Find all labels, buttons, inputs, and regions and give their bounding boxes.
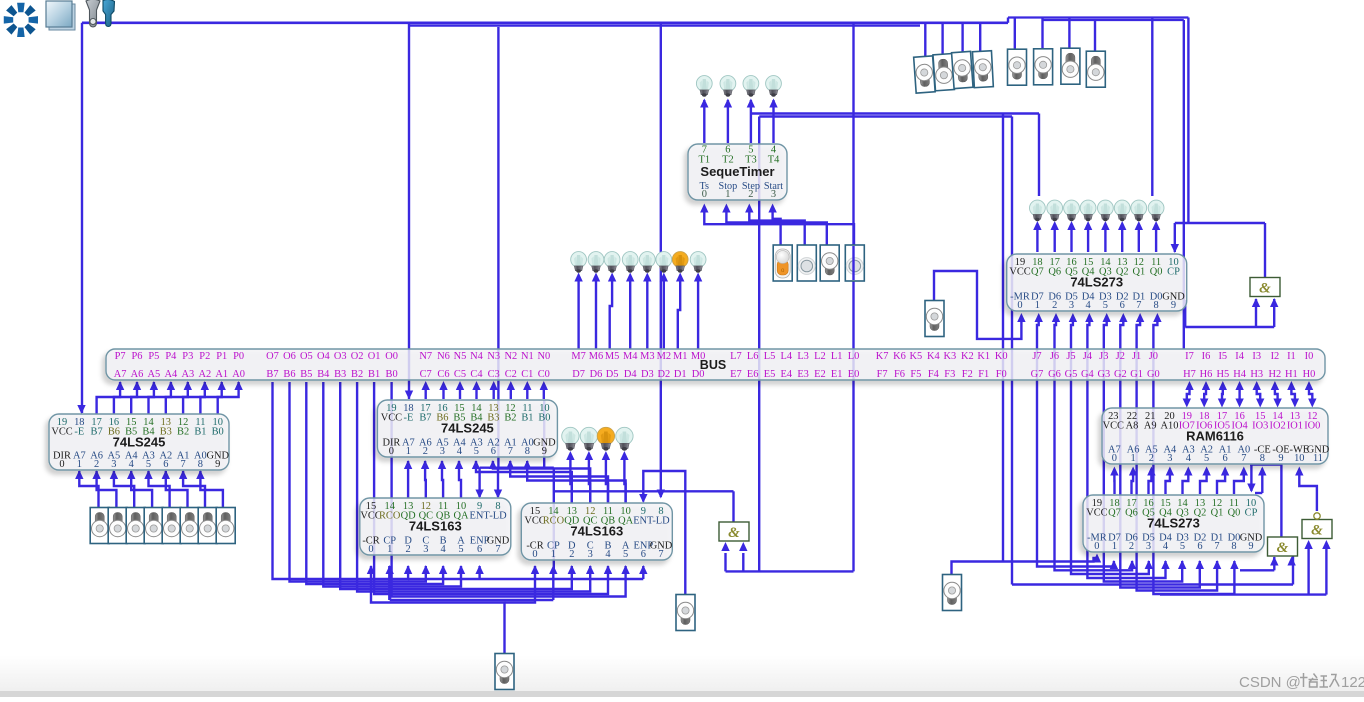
bulb M2 bus indicator bbox=[656, 252, 672, 273]
svg-text:B0: B0 bbox=[212, 427, 224, 438]
switch SW3 input bank toggle bbox=[162, 508, 181, 544]
wire: top rail L2 y=26.5 from x409 to x920 bbox=[409, 24, 920, 26]
svg-text:P0: P0 bbox=[233, 351, 244, 362]
svg-text:B7: B7 bbox=[419, 413, 431, 424]
svg-text:3: 3 bbox=[1167, 453, 1172, 464]
wire: BUS B drops to counters data inputs bbox=[273, 382, 409, 579]
bulb Q7 register indicator bbox=[1030, 200, 1046, 221]
svg-text:N6: N6 bbox=[437, 351, 450, 362]
svg-text:A6: A6 bbox=[131, 369, 144, 380]
svg-text:0: 0 bbox=[389, 446, 394, 457]
svg-text:E7: E7 bbox=[730, 369, 742, 380]
svg-text:IO2: IO2 bbox=[1270, 421, 1286, 432]
wire: top 273 Q outputs up to bulbs Q7..Q0 bbox=[1036, 230, 1038, 252]
wire: -MR net of bottom 74LS273 from switch S6 bbox=[952, 558, 1098, 574]
svg-text:O7: O7 bbox=[266, 351, 279, 362]
svg-text:Q0: Q0 bbox=[1228, 508, 1241, 519]
wire: RAM -OE / G3 output net bbox=[1250, 463, 1281, 465]
wire: top rail L3b y=20 x1042-x1184 bbox=[1043, 19, 1184, 21]
wire: ENP tie line along band y=580 to right counter ENP bbox=[478, 566, 480, 579]
svg-text:P4: P4 bbox=[165, 351, 177, 362]
wire: tap drop x=1003 down to bottom -MR net bbox=[1002, 114, 1004, 562]
svg-text:7: 7 bbox=[1214, 541, 1219, 552]
wire: right counter outputs up to indicator bulbs bbox=[570, 458, 571, 503]
svg-text:A5: A5 bbox=[148, 369, 161, 380]
svg-text:7: 7 bbox=[1136, 300, 1141, 311]
svg-text:H5: H5 bbox=[1216, 369, 1229, 380]
svg-text:J2: J2 bbox=[1116, 351, 1125, 362]
toolbar icon: document bbox=[46, 1, 75, 30]
svg-text:Q7: Q7 bbox=[1108, 508, 1121, 519]
switch SB3 toggle up bbox=[1061, 48, 1080, 84]
svg-text:Q6: Q6 bbox=[1048, 267, 1061, 278]
svg-text:H7: H7 bbox=[1183, 369, 1196, 380]
svg-text:6: 6 bbox=[1222, 453, 1227, 464]
bulb Q4 register indicator bbox=[1080, 200, 1096, 221]
svg-text:0: 0 bbox=[1094, 541, 1099, 552]
svg-text:0: 0 bbox=[59, 459, 64, 470]
svg-text:G6: G6 bbox=[1048, 369, 1061, 380]
bulb M3 bus indicator bbox=[639, 252, 655, 273]
wire: second tap line y=116.5 x759-x1012 bbox=[759, 115, 1012, 117]
svg-text:I2: I2 bbox=[1271, 351, 1280, 362]
switch SA4 toggle (slanted) bbox=[972, 51, 993, 88]
svg-text:B2: B2 bbox=[504, 413, 516, 424]
svg-text:VCC: VCC bbox=[1009, 267, 1030, 278]
svg-text:C5: C5 bbox=[454, 369, 466, 380]
svg-text:L1: L1 bbox=[831, 351, 843, 362]
switch SW6 input bank toggle bbox=[108, 508, 127, 544]
svg-text:RCO: RCO bbox=[543, 516, 565, 527]
svg-text:CSDN @: CSDN @ bbox=[1239, 674, 1301, 691]
svg-text:11: 11 bbox=[1313, 453, 1323, 464]
chip U5 74LS273 (top) bbox=[1007, 254, 1187, 311]
svg-text:I7: I7 bbox=[1185, 351, 1194, 362]
svg-text:E4: E4 bbox=[781, 369, 793, 380]
svg-text:C2: C2 bbox=[505, 369, 517, 380]
wire: switch S5 to -MR of top 74LS273 bbox=[934, 271, 1021, 339]
svg-text:Q7: Q7 bbox=[1031, 267, 1044, 278]
wire: sequencer input Stop from switch S3 bbox=[726, 212, 826, 245]
svg-text:O1: O1 bbox=[368, 351, 381, 362]
bulb Q5 register indicator bbox=[1064, 200, 1080, 221]
svg-text:G1: G1 bbox=[1130, 369, 1143, 380]
wire: NAND input feeder y=594.6 bbox=[1160, 593, 1326, 595]
svg-text:0: 0 bbox=[702, 189, 707, 200]
svg-text:ENT: ENT bbox=[633, 516, 654, 527]
bulb Q0 register indicator bbox=[1148, 200, 1164, 221]
svg-text:1: 1 bbox=[1035, 300, 1040, 311]
svg-text:O2: O2 bbox=[351, 351, 364, 362]
svg-text:A10: A10 bbox=[1161, 421, 1179, 432]
svg-text:B4: B4 bbox=[317, 369, 330, 380]
svg-text:I6: I6 bbox=[1202, 351, 1211, 362]
svg-text:M2: M2 bbox=[657, 351, 671, 362]
svg-text:G3: G3 bbox=[1097, 369, 1110, 380]
svg-text:H4: H4 bbox=[1233, 369, 1247, 380]
AND gate G3 (bottom right small) bbox=[1268, 537, 1298, 556]
svg-text:K4: K4 bbox=[927, 351, 941, 362]
svg-text:4: 4 bbox=[440, 544, 446, 555]
wire: enable riser x=498 (through BUS and chip2) down to load net bbox=[497, 27, 499, 468]
svg-text:D6: D6 bbox=[590, 369, 603, 380]
svg-text:C3: C3 bbox=[488, 369, 500, 380]
bulb M0 bus indicator bbox=[690, 252, 706, 273]
svg-text:2: 2 bbox=[405, 544, 410, 555]
svg-text:K3: K3 bbox=[943, 351, 956, 362]
switch S5 (feeds -MR of top 273) bbox=[925, 301, 944, 337]
switch S2 button bbox=[797, 245, 816, 281]
svg-text:BUS: BUS bbox=[700, 358, 726, 372]
svg-text:3: 3 bbox=[423, 544, 428, 555]
wire: M-section bulb leads from BUS top bbox=[577, 281, 579, 349]
bulb Q1 register indicator bbox=[1131, 200, 1147, 221]
svg-text:2: 2 bbox=[1052, 300, 1057, 311]
svg-text:J1: J1 bbox=[1132, 351, 1141, 362]
BUS component bbox=[106, 349, 1325, 380]
svg-text:B0: B0 bbox=[538, 413, 550, 424]
svg-text:SequeTimer: SequeTimer bbox=[700, 164, 774, 179]
bulb T4 indicator bbox=[766, 76, 782, 97]
bulb T1 indicator bbox=[696, 76, 712, 97]
bulb M7 bus indicator bbox=[571, 252, 587, 273]
svg-text:6: 6 bbox=[1120, 300, 1125, 311]
svg-text:VCC: VCC bbox=[1086, 508, 1107, 519]
wire: riser x=853.5 rail through switch S4 and BUS down to AND inputs bbox=[852, 23, 854, 572]
AND gate G1 (upper right) bbox=[1250, 278, 1280, 297]
svg-text:74LS163: 74LS163 bbox=[409, 519, 462, 534]
chip U6 RAM6116 bbox=[1102, 408, 1328, 464]
svg-text:0: 0 bbox=[1112, 453, 1117, 464]
svg-text:4: 4 bbox=[129, 459, 135, 470]
svg-text:K7: K7 bbox=[876, 351, 889, 362]
wire: left 74LS245 B outputs staircase up to BUS A pins bbox=[97, 382, 121, 414]
svg-text:L7: L7 bbox=[730, 351, 742, 362]
svg-text:B0: B0 bbox=[386, 369, 398, 380]
switch SB4 toggle up bbox=[1086, 51, 1105, 87]
svg-text:H1: H1 bbox=[1285, 369, 1298, 380]
svg-text:VCC: VCC bbox=[381, 413, 402, 424]
wire: T3 tap line y=113.5 from timer to bulb chain bbox=[751, 112, 1039, 114]
wire: -E riser of second 74LS245, x=409 (through BUS) bbox=[408, 23, 410, 399]
svg-text:N0: N0 bbox=[537, 351, 550, 362]
wire: -CR net from bottom switch S9 to both counters bbox=[371, 566, 505, 653]
svg-text:M7: M7 bbox=[571, 351, 585, 362]
svg-text:CP: CP bbox=[1167, 267, 1180, 278]
switch S9 (counter -CR) bbox=[495, 654, 514, 690]
svg-text:8: 8 bbox=[1153, 300, 1158, 311]
svg-text:CP: CP bbox=[1245, 508, 1258, 519]
svg-text:N4: N4 bbox=[470, 351, 484, 362]
svg-text:7: 7 bbox=[180, 459, 185, 470]
svg-text:J4: J4 bbox=[1083, 351, 1093, 362]
svg-text:3: 3 bbox=[771, 189, 776, 200]
wire: AND G3 input feeder y=570.3 bbox=[1240, 569, 1274, 571]
svg-text:B2: B2 bbox=[177, 427, 189, 438]
svg-text:H0: H0 bbox=[1303, 369, 1316, 380]
svg-text:A3: A3 bbox=[181, 369, 194, 380]
svg-text:E2: E2 bbox=[814, 369, 826, 380]
svg-text:O5: O5 bbox=[300, 351, 313, 362]
svg-text:RAM6116: RAM6116 bbox=[1186, 429, 1244, 444]
wire: riser x=1012 down through BUS/273 to low feeder bbox=[1011, 117, 1013, 585]
bulb Q3 register indicator bbox=[1098, 200, 1114, 221]
svg-text:1: 1 bbox=[1112, 541, 1117, 552]
chip U2 74LS245 (second) bbox=[377, 400, 557, 457]
svg-text:9: 9 bbox=[215, 459, 220, 470]
svg-text:3: 3 bbox=[1146, 541, 1151, 552]
svg-text:N7: N7 bbox=[419, 351, 432, 362]
wire: AND gate G1 output drop x=1265 bbox=[1264, 223, 1266, 277]
svg-text:B6: B6 bbox=[283, 369, 295, 380]
wire: drop x=1039 to top of bulb Q7 bbox=[1038, 114, 1040, 197]
svg-text:P2: P2 bbox=[199, 351, 210, 362]
svg-text:Q1: Q1 bbox=[1132, 267, 1145, 278]
wire: segment of x853.5 riser passing through inline switch S4 bbox=[852, 246, 854, 280]
svg-text:D3: D3 bbox=[641, 369, 654, 380]
svg-text:F6: F6 bbox=[894, 369, 905, 380]
svg-text:C0: C0 bbox=[538, 369, 550, 380]
svg-text:2: 2 bbox=[569, 549, 574, 560]
svg-text:4: 4 bbox=[457, 446, 463, 457]
svg-text:5: 5 bbox=[458, 544, 463, 555]
wire: input switches up to left 74LS245 A pins bbox=[79, 471, 98, 508]
svg-text:G4: G4 bbox=[1081, 369, 1095, 380]
svg-text:O3: O3 bbox=[334, 351, 347, 362]
bulb M1 bus indicator (lit) bbox=[672, 252, 688, 273]
svg-text:O0: O0 bbox=[385, 351, 398, 362]
svg-text:9: 9 bbox=[1171, 300, 1176, 311]
svg-text:8: 8 bbox=[198, 459, 203, 470]
svg-text:F1: F1 bbox=[978, 369, 989, 380]
bulb Q2 register indicator bbox=[1114, 200, 1130, 221]
wire: CP band linking both counters y=600 bbox=[390, 599, 554, 601]
bulb counter QA bbox=[616, 427, 633, 450]
wire: rail end drop x=1152.3 down to bulb Q7 top bbox=[1151, 18, 1153, 197]
bulb counter QB (lit) bbox=[597, 427, 614, 450]
svg-text:B7: B7 bbox=[266, 369, 278, 380]
svg-text:C1: C1 bbox=[521, 369, 533, 380]
svg-text:Q6: Q6 bbox=[1125, 508, 1138, 519]
wire: counter outputs (right 163) across to 74LS245-2 A3..A0 bbox=[476, 461, 572, 503]
svg-text:-E: -E bbox=[74, 427, 84, 438]
svg-text:K6: K6 bbox=[893, 351, 906, 362]
svg-text:6: 6 bbox=[641, 549, 646, 560]
svg-text:F0: F0 bbox=[996, 369, 1007, 380]
wire: RAM -CE stub bbox=[1261, 469, 1263, 494]
svg-text:B1: B1 bbox=[368, 369, 380, 380]
svg-text:N2: N2 bbox=[504, 351, 517, 362]
bulb T3 indicator bbox=[743, 76, 759, 97]
svg-text:6: 6 bbox=[1197, 541, 1202, 552]
bulb Q6 register indicator bbox=[1047, 200, 1063, 221]
svg-text:&: & bbox=[1311, 523, 1323, 539]
switch SW4 input bank toggle bbox=[144, 508, 163, 544]
wire: bottom 273 Q outputs staircase to RAM address pins bbox=[1113, 469, 1115, 494]
svg-text:O6: O6 bbox=[283, 351, 296, 362]
svg-text:C4: C4 bbox=[470, 369, 483, 380]
wire: sequencer input Step from switch S2 bbox=[749, 212, 804, 245]
svg-text:A7: A7 bbox=[114, 369, 127, 380]
switch S1 rocker (on) bbox=[773, 245, 792, 281]
bulb counter QC bbox=[580, 427, 597, 450]
wire: CP_r feed from chip2 row through chip bbox=[553, 468, 555, 570]
svg-text:1: 1 bbox=[1130, 453, 1135, 464]
svg-text:Q0: Q0 bbox=[1150, 267, 1163, 278]
svg-text:E1: E1 bbox=[831, 369, 843, 380]
svg-text:IO3: IO3 bbox=[1252, 421, 1268, 432]
svg-text:3: 3 bbox=[440, 446, 445, 457]
switch S3 toggle down bbox=[820, 245, 839, 281]
AND gate G2 (middle, counters load) bbox=[719, 522, 749, 541]
wire: bus C0 tap down through 74LS245-2 to load row bbox=[543, 400, 545, 468]
svg-text:B1: B1 bbox=[521, 413, 533, 424]
svg-text:F5: F5 bbox=[910, 369, 921, 380]
svg-text:2: 2 bbox=[423, 446, 428, 457]
svg-text:7: 7 bbox=[508, 446, 513, 457]
wire: AND gate G2 inputs feeder y=571.4 bbox=[726, 570, 854, 572]
svg-text:8: 8 bbox=[1231, 541, 1236, 552]
svg-text:7: 7 bbox=[495, 544, 500, 555]
wire: sequencer T outputs up to bulbs T1-T4 bbox=[703, 100, 705, 143]
svg-text:ENT: ENT bbox=[469, 511, 490, 522]
svg-text:7: 7 bbox=[658, 549, 663, 560]
svg-text:4: 4 bbox=[605, 549, 611, 560]
svg-text:K2: K2 bbox=[961, 351, 974, 362]
toolbar icon: refresh burst bbox=[4, 3, 38, 37]
svg-text:H3: H3 bbox=[1250, 369, 1263, 380]
svg-text:5: 5 bbox=[1204, 453, 1209, 464]
svg-text:D5: D5 bbox=[606, 369, 619, 380]
svg-text:B3: B3 bbox=[334, 369, 346, 380]
svg-text:RCO: RCO bbox=[379, 511, 401, 522]
svg-text:L2: L2 bbox=[814, 351, 826, 362]
svg-text:6: 6 bbox=[491, 446, 496, 457]
wire: sequencer input Ts from inline switch S4 bbox=[704, 212, 854, 245]
svg-text:5: 5 bbox=[146, 459, 151, 470]
svg-text:3: 3 bbox=[588, 549, 593, 560]
svg-text:3: 3 bbox=[1069, 300, 1074, 311]
svg-text:0: 0 bbox=[1017, 300, 1022, 311]
svg-text:E5: E5 bbox=[764, 369, 776, 380]
svg-text:F7: F7 bbox=[877, 369, 888, 380]
svg-text:B1: B1 bbox=[194, 427, 206, 438]
wire: ENT of right 163 from switch S10 bbox=[643, 471, 685, 595]
svg-text:1: 1 bbox=[551, 549, 556, 560]
wire: RAM -WE from NAND G4 bubble bbox=[1299, 469, 1317, 511]
chip U1 74LS245 (left) bbox=[49, 414, 229, 470]
svg-text:M1: M1 bbox=[673, 351, 687, 362]
switch SW7 input bank toggle bbox=[90, 508, 109, 544]
svg-text:8: 8 bbox=[525, 446, 530, 457]
svg-text:3: 3 bbox=[111, 459, 116, 470]
chip U7 74LS273 (bottom) bbox=[1083, 495, 1264, 552]
svg-text:-E: -E bbox=[403, 413, 413, 424]
svg-text:4: 4 bbox=[1085, 300, 1091, 311]
switch SB1 toggle bbox=[1008, 49, 1027, 85]
wire: drops to top switch group B (four switches) bbox=[1014, 18, 1016, 51]
svg-text:I3: I3 bbox=[1252, 351, 1261, 362]
svg-text:4: 4 bbox=[1163, 541, 1169, 552]
svg-text:F3: F3 bbox=[944, 369, 955, 380]
svg-text:N3: N3 bbox=[487, 351, 500, 362]
svg-text:122: 122 bbox=[1341, 674, 1364, 691]
watermark bbox=[1239, 673, 1364, 691]
svg-text:C7: C7 bbox=[420, 369, 432, 380]
switch SA1 toggle (slanted) bbox=[914, 56, 935, 93]
svg-text:I4: I4 bbox=[1235, 351, 1244, 362]
svg-text:A8: A8 bbox=[1126, 421, 1139, 432]
svg-text:J3: J3 bbox=[1099, 351, 1108, 362]
svg-text:A9: A9 bbox=[1144, 421, 1157, 432]
svg-text:B7: B7 bbox=[91, 427, 103, 438]
svg-text:J0: J0 bbox=[1149, 351, 1158, 362]
svg-text:M3: M3 bbox=[640, 351, 654, 362]
switch SW2 input bank toggle bbox=[180, 508, 199, 544]
bulb T2 indicator bbox=[720, 76, 736, 97]
svg-text:K5: K5 bbox=[910, 351, 923, 362]
bulb M4 bus indicator bbox=[622, 252, 638, 273]
svg-text:2: 2 bbox=[1129, 541, 1134, 552]
wire: drops to top switch group A (four slanted switches) bbox=[924, 23, 926, 58]
svg-text:&: & bbox=[1259, 281, 1271, 297]
wire: AND gate G1 input feeder y=327 bbox=[1185, 326, 1274, 328]
svg-text:L5: L5 bbox=[764, 351, 776, 362]
svg-text:J5: J5 bbox=[1066, 351, 1075, 362]
svg-text:M5: M5 bbox=[605, 351, 619, 362]
wire: load net lower run y=491.3 to AND gate G2 output bbox=[554, 490, 734, 492]
svg-text:4: 4 bbox=[1186, 453, 1192, 464]
svg-text:2: 2 bbox=[94, 459, 99, 470]
svg-text:Q1: Q1 bbox=[1211, 508, 1224, 519]
wire: riser x=759.2 down through BUS to AND feeder bbox=[758, 117, 760, 572]
wire: load/enable net: ENT/-LD of left163 tied, fed from x498 riser bbox=[480, 467, 554, 469]
svg-text:P7: P7 bbox=[115, 351, 126, 362]
bulb counter QD bbox=[562, 427, 579, 450]
svg-text:A0: A0 bbox=[232, 369, 245, 380]
svg-text:5: 5 bbox=[1180, 541, 1185, 552]
svg-text:D1: D1 bbox=[674, 369, 687, 380]
wire: top rail L1 y=24 from x82 to x1008 bbox=[82, 21, 1008, 24]
chip U3 74LS163 (left counter) bbox=[360, 498, 511, 555]
svg-text:D4: D4 bbox=[624, 369, 638, 380]
svg-text:D2: D2 bbox=[657, 369, 670, 380]
wire: top rail L3a y=17.5 x1008-x1188 bbox=[1008, 16, 1188, 18]
svg-text:VCC: VCC bbox=[1103, 421, 1124, 432]
svg-text:G0: G0 bbox=[1147, 369, 1160, 380]
svg-text:1: 1 bbox=[387, 544, 392, 555]
svg-text:I5: I5 bbox=[1218, 351, 1227, 362]
svg-text:&: & bbox=[1277, 540, 1289, 556]
wire: BUS H pins to RAM IO pins bidirectional bbox=[1185, 381, 1193, 390]
svg-text:G7: G7 bbox=[1031, 369, 1044, 380]
svg-text:9: 9 bbox=[1248, 541, 1253, 552]
sequencer U8 SequeTimer bbox=[688, 144, 787, 200]
wire: -E riser of left 74LS245, x=82 bbox=[81, 23, 83, 413]
svg-text:L4: L4 bbox=[781, 351, 793, 362]
svg-text:8: 8 bbox=[1260, 453, 1265, 464]
svg-text:B5: B5 bbox=[300, 369, 312, 380]
svg-text:6: 6 bbox=[477, 544, 482, 555]
switch SA2 toggle up (slanted) bbox=[933, 54, 954, 91]
svg-text:IO0: IO0 bbox=[1304, 421, 1320, 432]
wire: CP feeder of top 74LS273 y=223 bbox=[1175, 222, 1265, 224]
svg-text:A4: A4 bbox=[165, 369, 179, 380]
svg-text:J7: J7 bbox=[1032, 351, 1041, 362]
svg-text:F2: F2 bbox=[962, 369, 973, 380]
svg-text:F4: F4 bbox=[928, 369, 940, 380]
svg-text:N5: N5 bbox=[454, 351, 467, 362]
